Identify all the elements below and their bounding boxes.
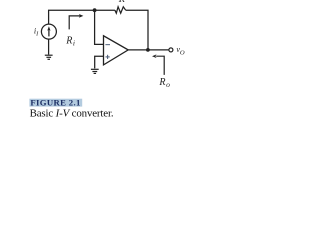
svg-text:FIGURE 2.1: FIGURE 2.1 xyxy=(30,98,80,108)
arrow: input-resistance pointer R_i xyxy=(69,14,83,29)
label R_i xyxy=(65,36,75,48)
wire: non-inverting input to ground stem xyxy=(95,56,103,68)
caption highlight band xyxy=(29,99,82,107)
wire: resistor right lead and vertical to output node xyxy=(126,10,148,50)
pin label: inverting (-) xyxy=(105,44,110,46)
ground (op-amp non-inverting input) xyxy=(91,69,99,73)
label v_O xyxy=(176,45,185,57)
current source i_I (circle with up arrow) xyxy=(41,24,56,39)
wire: current source bottom stem to ground xyxy=(48,39,50,55)
svg-text:I: I xyxy=(35,31,39,38)
arrow: output-resistance pointer R_o xyxy=(152,54,164,75)
svg-text:O: O xyxy=(180,50,185,57)
svg-text:R: R xyxy=(65,36,72,47)
wire: inverting-input branch from node down to op-amp xyxy=(95,10,103,44)
svg-text:i: i xyxy=(73,38,75,47)
svg-text:R: R xyxy=(158,77,165,88)
wire: op-amp output to terminal xyxy=(128,49,168,51)
node B: junction dot at output node xyxy=(146,48,150,52)
svg-text:o: o xyxy=(166,80,170,89)
ground (current source) xyxy=(45,55,53,59)
svg-text:Basic I-V converter.: Basic I-V converter. xyxy=(30,108,114,120)
wire: top net (input node) from current source corner to resistor xyxy=(49,10,115,24)
terminal: output open circle xyxy=(169,48,173,52)
op-amp U1 triangle xyxy=(104,36,129,65)
node A: junction dot at inverting input node xyxy=(93,8,97,12)
svg-text:R: R xyxy=(118,0,125,5)
pin label: non-inverting (+) xyxy=(106,55,110,59)
resistor R (zigzag) xyxy=(115,7,126,13)
label R_o xyxy=(158,77,170,89)
label i_I xyxy=(34,27,39,38)
